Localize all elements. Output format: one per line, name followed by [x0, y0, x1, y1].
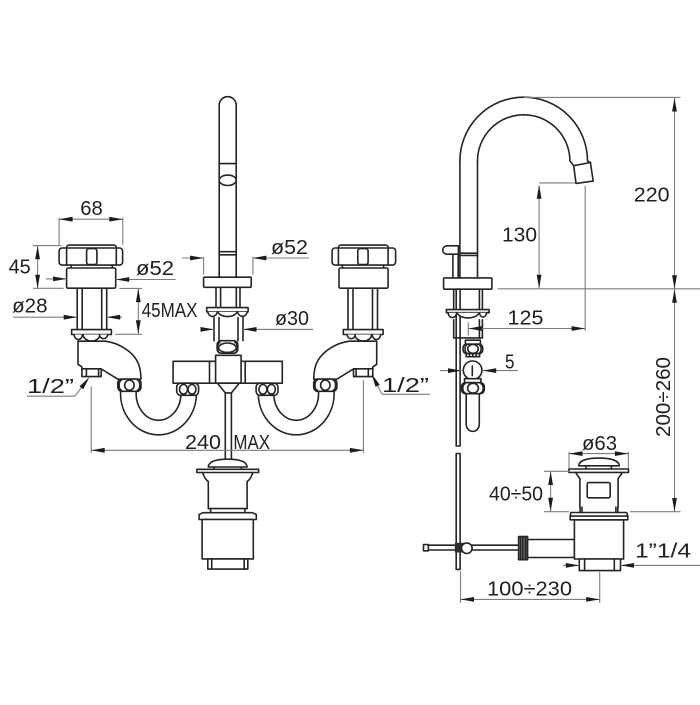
shank outer right [239, 287, 241, 307]
neck right edge [111, 265, 113, 268]
dimension 240MAX ext lines [90, 386, 92, 453]
popup rod mid segment [456, 289, 460, 446]
elbow body [78, 341, 141, 379]
popup tail inner left [211, 559, 213, 569]
lower tube inner right [237, 318, 239, 341]
valve coupling nut [463, 344, 483, 353]
svg-text:125: 125 [508, 308, 544, 330]
dimension 40-50 ext lines [544, 470, 570, 472]
drain neck right [618, 472, 622, 507]
lever ball joint [462, 543, 473, 554]
right arm nut [256, 383, 278, 395]
popup trumpet right [247, 473, 253, 509]
drain outlet [579, 559, 620, 571]
stem outer left [76, 288, 78, 329]
dimension 45MAX ext lines [119, 287, 142, 289]
washer [207, 308, 248, 312]
dimension 130 line [538, 185, 540, 288]
hex center facet [87, 249, 97, 265]
popup tail [208, 559, 248, 569]
T-body center block [216, 355, 242, 383]
deck line [498, 288, 700, 290]
spout tube outer left [459, 161, 461, 278]
dimension 240MAX line [91, 449, 363, 451]
center coupling arc right [235, 343, 238, 353]
popup cap neck right [240, 467, 242, 469]
shank lower a [453, 320, 455, 338]
drain neck lip left [579, 507, 581, 512]
popup rod lower segment [456, 454, 460, 570]
center coupling nut [217, 341, 238, 354]
spout tube joint upper [460, 252, 478, 254]
svg-text:40÷50: 40÷50 [489, 484, 543, 506]
gooseneck spout inner arc [478, 115, 574, 166]
right arm nut circle a [259, 385, 267, 395]
left arm nut circle b [188, 385, 196, 395]
dimension 45 line [37, 246, 39, 288]
left arm nut circle a [180, 385, 188, 395]
svg-text:ø28: ø28 [12, 296, 47, 318]
shank edge b [478, 289, 480, 309]
side locknut dome [457, 313, 479, 318]
dimension d52 center ext lines [203, 257, 205, 275]
valve neck rib b [472, 354, 474, 357]
popup trumpet left [203, 473, 209, 509]
locknut dome [218, 312, 237, 317]
shank inner left [220, 287, 222, 307]
drain collar mid line [570, 515, 628, 517]
outlet inner left [584, 559, 586, 571]
gooseneck spout outer arc (side view) [460, 97, 591, 162]
outlet inner right [613, 559, 615, 571]
gland right bump [99, 335, 107, 339]
coupling nut [118, 379, 141, 391]
drain collar [570, 513, 628, 520]
svg-text:45: 45 [9, 257, 31, 279]
svg-text:1/2”: 1/2” [27, 376, 74, 398]
shank bottom edge [454, 337, 483, 339]
svg-text:130: 130 [502, 225, 537, 247]
valve coupling circle [468, 345, 479, 354]
shank lower b [478, 320, 480, 338]
inlet pipe [528, 540, 575, 558]
dimension 45MAX line [137, 289, 139, 334]
overflow window [587, 483, 610, 498]
popup neck inner right [244, 509, 246, 513]
valve coupling arc left [465, 345, 466, 352]
U-tube outer arc [121, 391, 197, 435]
drain body (side) [574, 520, 623, 559]
side washer [446, 310, 489, 313]
drain cap (side) [579, 458, 620, 466]
valve ball tick [471, 366, 473, 376]
spout tube joint lower [460, 254, 478, 256]
dimension d28 leader [13, 316, 77, 318]
dimension 1-1/4 leader [563, 564, 579, 566]
dimension d52 center leader [182, 257, 204, 259]
right arm nut circle b [267, 385, 275, 395]
shank outer left [215, 287, 217, 307]
drain cap legs [585, 466, 587, 469]
svg-text:ø52: ø52 [136, 258, 174, 280]
tail cone [218, 383, 240, 393]
hex facet line left [66, 248, 68, 264]
popup rod upper left [452, 254, 454, 278]
dimension 125 ticks [467, 322, 469, 335]
stem inner right [101, 288, 103, 329]
popup cap (front) [208, 459, 247, 467]
dimension d63 ext lines [568, 452, 570, 469]
valve ball [463, 361, 482, 380]
drain plate (side) [569, 469, 629, 472]
lever bar [428, 545, 519, 550]
dimension 125 line [468, 328, 585, 330]
valve step [465, 379, 481, 383]
dimension d30 leader [201, 328, 215, 330]
svg-text:1”1/4: 1”1/4 [635, 541, 691, 563]
hex facet line right [115, 248, 117, 264]
center coupling oval [219, 343, 237, 352]
valve collar [465, 340, 480, 344]
coupling left arc [119, 380, 121, 390]
dimension 220 line [674, 98, 676, 289]
valve neck rib a [469, 354, 471, 357]
valve lower arc right [481, 384, 483, 393]
tube joint line upper [219, 251, 236, 253]
center coupling arc left [217, 343, 220, 353]
shank edge c [481, 289, 483, 309]
gland plate [72, 330, 112, 335]
gland left bump [74, 335, 82, 340]
locknut left lobe [208, 312, 218, 317]
svg-text:200÷260: 200÷260 [653, 357, 675, 437]
knurl rib b [521, 537, 523, 560]
side locknut right lobe [480, 313, 487, 317]
locknut right lobe [238, 312, 248, 317]
svg-text:ø52: ø52 [271, 237, 308, 259]
shank lower c [481, 320, 483, 338]
popup body [202, 520, 253, 559]
svg-text:240: 240 [185, 432, 221, 454]
dimension 68 ext lines [58, 218, 60, 245]
hex cap top lip [67, 245, 117, 253]
U-tube inner arc [136, 391, 181, 420]
valve neck [466, 354, 479, 357]
handle skirt [67, 268, 116, 288]
gland dome [83, 335, 100, 342]
left arm nut [177, 383, 199, 395]
drain neck lip right [615, 507, 617, 512]
shank edge a [453, 289, 455, 309]
drain neck left [576, 472, 580, 507]
dimension 220 ext [524, 96, 681, 98]
tail rod right [230, 393, 232, 458]
knurl rib c [523, 537, 525, 560]
arm joint left [209, 361, 211, 383]
tube mouth ellipse [219, 175, 236, 185]
stub inner right [98, 369, 100, 377]
lower tube outer right [242, 318, 244, 341]
knurl rib a [519, 537, 521, 560]
knurl rib d [525, 537, 527, 560]
hex cap body [59, 248, 123, 265]
popup rod upper right [457, 254, 459, 278]
lower tube outer left [213, 318, 215, 341]
left handle assembly (front view) [59, 245, 196, 435]
tail rod left [224, 393, 226, 458]
svg-text:220: 220 [634, 184, 670, 206]
svg-text:100÷230: 100÷230 [487, 579, 572, 601]
neck left edge [70, 265, 72, 268]
dimension d52 left leader [46, 278, 67, 280]
tube section line [219, 163, 236, 165]
dimension 45 ext lines [33, 245, 62, 247]
arm joint right [244, 361, 246, 383]
valve lower coupling [462, 383, 485, 394]
dimension 5 leader [440, 370, 462, 372]
popup collar [199, 513, 256, 520]
side locknut left lobe [448, 313, 456, 318]
popup trumpet bottom line [208, 508, 247, 510]
lower tube inner left [218, 318, 220, 341]
svg-text:MAX: MAX [233, 432, 270, 454]
popup tail inner right [243, 559, 245, 569]
valve test tube [466, 394, 479, 432]
right handle assembly (mirrored) [258, 245, 395, 435]
dimension d63 line [569, 453, 628, 455]
coupling right arc [137, 380, 139, 390]
popup cap neck left [213, 467, 215, 469]
tube joint line lower [219, 254, 236, 256]
svg-text:1/2”: 1/2” [382, 375, 429, 397]
svg-text:ø30: ø30 [275, 308, 309, 330]
T-body arms [173, 361, 282, 383]
svg-text:45MAX: 45MAX [142, 300, 198, 322]
dimension 200-260 line [674, 289, 676, 511]
popup flange plate (front) [197, 469, 259, 472]
coupling circle [125, 380, 134, 390]
svg-text:5: 5 [505, 352, 515, 374]
dimension 68 line [59, 218, 123, 220]
stem inner left [81, 288, 83, 329]
valve lower arc left [463, 384, 465, 393]
spout tube inner left [477, 161, 479, 278]
svg-text:68: 68 [80, 198, 103, 220]
valve coupling arc right [480, 345, 481, 352]
knurled adjuster [519, 537, 528, 560]
rod clevis block [455, 543, 464, 552]
spout base flange (side) [444, 278, 492, 289]
dimension 40-50 line [550, 472, 552, 512]
dimension 100-230 ext lines [460, 571, 462, 603]
dimension 100-230 line [461, 598, 600, 600]
svg-text:ø63: ø63 [582, 433, 617, 455]
lever end cap [424, 545, 429, 551]
spout nozzle [574, 163, 594, 184]
center spout tube (front view) [219, 97, 236, 278]
popup neck inner left [210, 509, 212, 513]
spout base flange [204, 277, 252, 287]
stub inner left [85, 369, 87, 377]
popup rod knob [443, 246, 459, 254]
shank inner right [235, 287, 237, 307]
stem outer right [106, 288, 108, 329]
valve lower circle [468, 383, 479, 393]
valve neck rib c [475, 354, 477, 357]
outlet stub lip [82, 368, 101, 370]
